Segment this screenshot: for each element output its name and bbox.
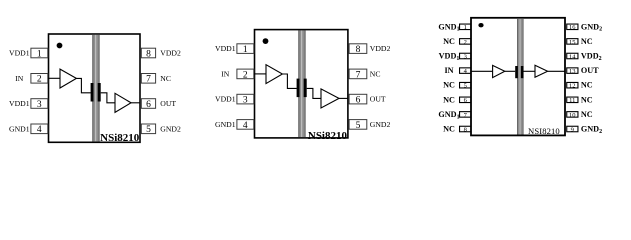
isolation capacitor C2: [297, 79, 307, 98]
svg-text:8: 8: [146, 49, 151, 59]
part label NSI8210: [528, 126, 560, 136]
svg-text:GND2: GND2: [581, 125, 602, 135]
svg-text:GND1: GND1: [438, 22, 459, 32]
pin 12 NC: [567, 81, 593, 90]
isolation barrier: [298, 31, 305, 138]
pin 8 VDD2: [349, 44, 390, 55]
pin 15 NC: [567, 37, 593, 46]
wire IN to buffer A1: [254, 73, 266, 75]
buffer A1: [60, 69, 76, 88]
pin 9 GND2: [567, 125, 602, 135]
wire capacitor to buffer A2: [307, 88, 321, 98]
svg-text:5: 5: [356, 121, 361, 131]
svg-text:2: 2: [464, 39, 467, 46]
pin 8 VDD2: [141, 48, 181, 59]
svg-text:NC: NC: [443, 37, 455, 46]
package U1 body: [49, 34, 141, 142]
svg-text:OUT: OUT: [160, 99, 176, 108]
svg-text:GND1: GND1: [9, 124, 30, 133]
pin 16 GND2: [567, 22, 602, 32]
svg-text:1: 1: [37, 49, 42, 59]
svg-text:3: 3: [464, 53, 467, 60]
svg-text:1: 1: [464, 24, 467, 31]
pin 2 NC: [443, 37, 471, 46]
svg-text:VDD2: VDD2: [160, 49, 181, 58]
isolation capacitor C1: [91, 83, 101, 102]
pin-1 marker dot: [57, 43, 63, 49]
wire capacitor to buffer A2: [101, 93, 115, 103]
svg-text:GND2: GND2: [160, 124, 181, 133]
svg-text:NC: NC: [581, 81, 593, 90]
svg-text:GND2: GND2: [370, 120, 391, 129]
pin 3 VDD1: [215, 94, 254, 105]
buffer A6: [535, 65, 548, 77]
svg-text:NC: NC: [370, 70, 381, 79]
svg-text:VDD2: VDD2: [370, 44, 391, 53]
svg-text:3: 3: [37, 100, 42, 110]
svg-text:VDD1: VDD1: [9, 49, 30, 58]
pin 2 IN: [15, 74, 48, 85]
svg-text:VDD2: VDD2: [581, 52, 602, 62]
svg-text:16: 16: [569, 24, 576, 31]
svg-text:6: 6: [356, 96, 361, 106]
svg-text:10: 10: [569, 112, 576, 119]
svg-text:5: 5: [464, 83, 467, 90]
buffer A2: [321, 89, 339, 108]
svg-text:1: 1: [243, 45, 248, 55]
svg-text:3: 3: [243, 96, 248, 106]
pin-1 marker dot: [478, 23, 483, 27]
pin 3 VDD1: [439, 52, 471, 62]
wire A2 to OUT: [339, 97, 349, 99]
pin 7 NC: [349, 69, 380, 80]
isolation barrier: [92, 35, 99, 141]
pin 1 GND1: [438, 22, 471, 32]
pin 1 VDD1: [9, 48, 48, 59]
part label NSi8210: [100, 132, 140, 144]
svg-text:2: 2: [37, 75, 42, 85]
pin 6 NC: [443, 95, 471, 104]
svg-text:NSI8210: NSI8210: [528, 126, 560, 136]
pin 5 GND2: [141, 124, 181, 135]
svg-text:9: 9: [571, 126, 574, 133]
pin 6 OUT: [141, 99, 176, 110]
pin 11 NC: [567, 95, 593, 104]
svg-text:NC: NC: [581, 37, 593, 46]
svg-text:GND2: GND2: [581, 22, 602, 32]
svg-text:NC: NC: [581, 110, 593, 119]
pin 4 GND1: [9, 124, 48, 135]
buffer A2: [115, 93, 131, 112]
svg-text:14: 14: [569, 53, 576, 60]
svg-text:7: 7: [356, 70, 361, 80]
package U2 body: [255, 30, 348, 138]
svg-text:8: 8: [356, 45, 361, 55]
svg-text:NSi8210: NSi8210: [100, 132, 140, 144]
pin 7 GND1: [438, 110, 471, 120]
pin 2 IN: [221, 69, 254, 80]
pin 5 GND2: [349, 120, 390, 131]
svg-text:13: 13: [569, 68, 576, 75]
wire A2 to OUT: [131, 102, 140, 104]
svg-text:NC: NC: [443, 95, 455, 104]
svg-text:15: 15: [569, 39, 576, 46]
svg-text:NC: NC: [443, 81, 455, 90]
pin 14 VDD2: [567, 52, 602, 62]
wire capacitor to buffer A6: [524, 70, 536, 72]
svg-text:NC: NC: [160, 74, 171, 83]
svg-text:VDD1: VDD1: [439, 52, 460, 62]
svg-text:NSi8210: NSi8210: [308, 130, 348, 142]
wire IN to buffer A5: [471, 70, 493, 72]
svg-text:11: 11: [569, 97, 575, 104]
pin 4 GND1: [215, 120, 254, 131]
buffer A5: [493, 65, 505, 77]
pin 10 NC: [567, 110, 593, 119]
wire A1 to capacitor: [282, 74, 296, 88]
part label NSi8210: [308, 130, 348, 142]
pin-1 marker dot: [263, 38, 269, 44]
package U3 body: [471, 18, 565, 136]
pin 1 VDD1: [215, 44, 254, 55]
isolation barrier: [517, 19, 524, 135]
svg-text:IN: IN: [221, 70, 230, 79]
svg-text:4: 4: [243, 121, 248, 131]
wire A6 to OUT: [548, 70, 565, 72]
svg-text:IN: IN: [444, 66, 453, 75]
pin 5 NC: [443, 81, 471, 90]
wire A1 to capacitor: [76, 78, 90, 92]
pin 4 IN: [444, 66, 471, 75]
wire A5 to capacitor: [505, 70, 515, 72]
pin 6 OUT: [349, 94, 386, 105]
pin 8 NC: [443, 125, 471, 134]
svg-text:OUT: OUT: [581, 66, 599, 75]
svg-text:NC: NC: [581, 95, 593, 104]
svg-text:4: 4: [37, 125, 42, 135]
svg-text:8: 8: [464, 126, 467, 133]
svg-text:GND1: GND1: [215, 120, 236, 129]
svg-text:OUT: OUT: [370, 95, 386, 104]
svg-text:NC: NC: [443, 125, 455, 134]
pin 7 NC: [141, 74, 171, 85]
wire IN to buffer A1: [48, 77, 60, 79]
svg-text:VDD1: VDD1: [215, 95, 236, 104]
svg-text:5: 5: [146, 125, 151, 135]
pin 13 OUT: [567, 66, 599, 75]
svg-text:VDD1: VDD1: [215, 44, 236, 53]
svg-text:6: 6: [146, 100, 151, 110]
svg-text:GND1: GND1: [438, 110, 459, 120]
buffer A1: [266, 65, 282, 84]
isolation capacitor C3: [515, 66, 523, 78]
svg-text:12: 12: [569, 83, 576, 90]
svg-text:VDD1: VDD1: [9, 99, 30, 108]
svg-text:2: 2: [243, 70, 248, 80]
svg-text:7: 7: [146, 75, 151, 85]
pin 3 VDD1: [9, 99, 48, 110]
svg-text:IN: IN: [15, 74, 24, 83]
